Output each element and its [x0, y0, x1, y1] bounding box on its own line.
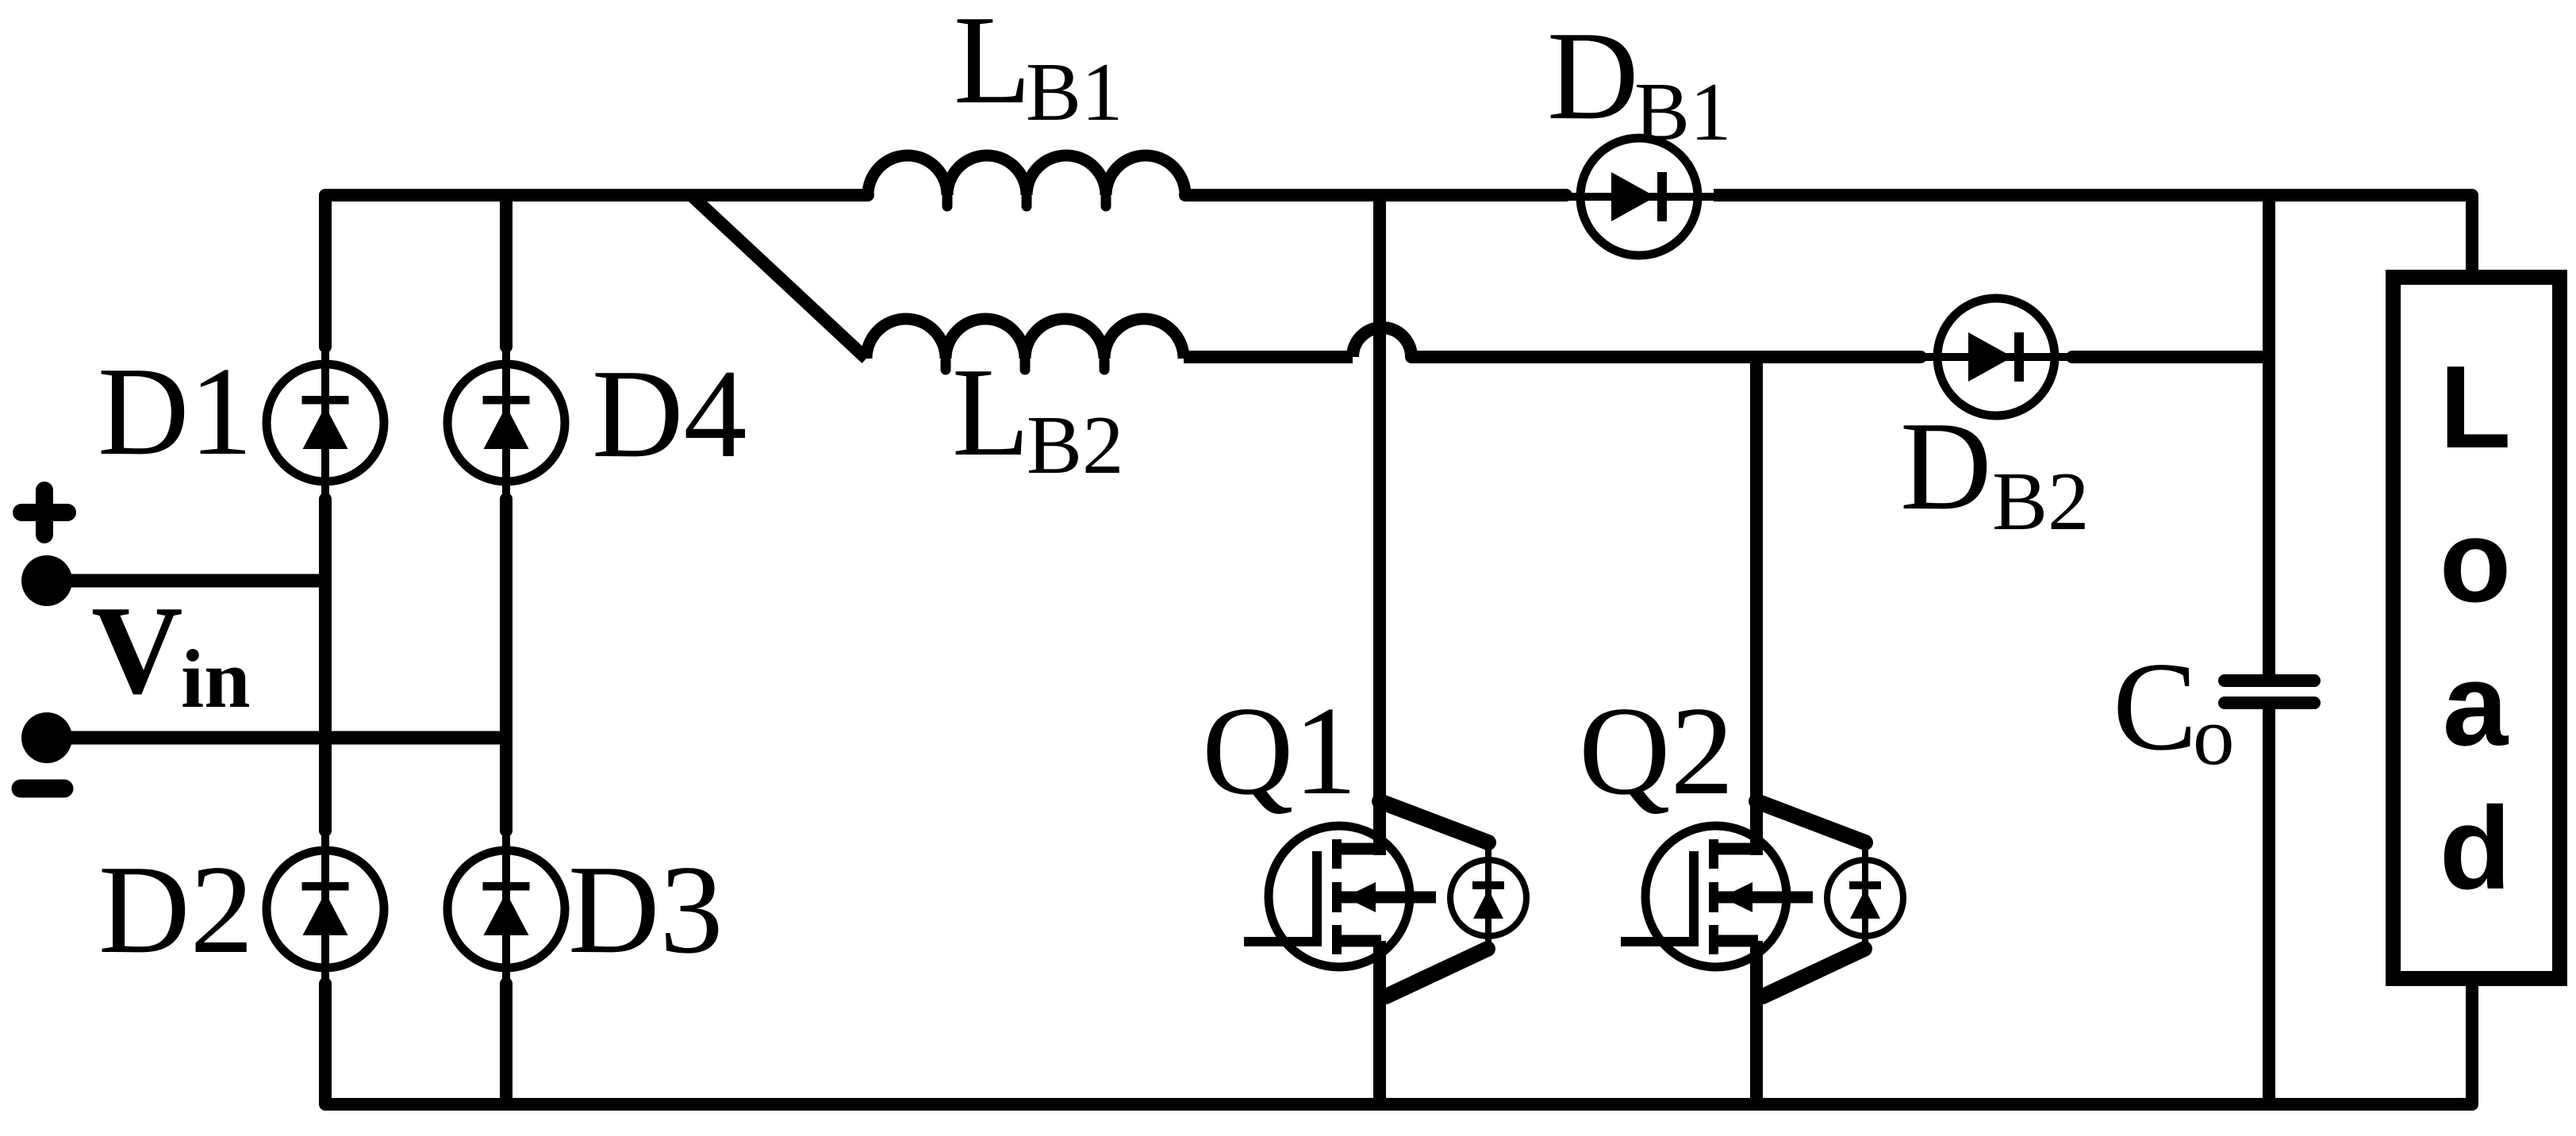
wire Vin plus: [47, 574, 325, 588]
svg-text:Q1: Q1: [1202, 680, 1357, 821]
svg-text:o: o: [2193, 689, 2235, 782]
wire hop over Q1 branch: [1353, 328, 1411, 357]
diode D2: [267, 833, 384, 985]
inductor LB2: [866, 319, 1184, 359]
wire Vin minus: [47, 731, 506, 745]
wire LB2 node to DB2: [1411, 351, 1921, 363]
minus terminal: [21, 780, 64, 798]
capacitor Co: [2225, 674, 2314, 687]
diode DB2: [1921, 298, 2071, 416]
wire Q1 drain branch: [1373, 195, 1386, 855]
svg-text:C: C: [2113, 635, 2198, 777]
node plus dot: [21, 555, 72, 606]
svg-text:D: D: [1547, 5, 1639, 146]
svg-text:L: L: [954, 0, 1031, 130]
svg-text:B2: B2: [1992, 455, 2090, 547]
transistor Q2: [1621, 801, 1903, 996]
svg-text:B1: B1: [1026, 45, 1123, 138]
diode D4: [447, 347, 565, 499]
wire top bus left with corner down to D1: [325, 195, 868, 347]
wire Co branch bottom: [2263, 708, 2275, 1104]
svg-text:D1: D1: [98, 340, 253, 482]
svg-text:B1: B1: [1634, 65, 1732, 158]
svg-text:in: in: [181, 632, 251, 725]
svg-text:o: o: [2440, 496, 2511, 627]
diode D3: [447, 833, 565, 985]
wire LB2 to hop: [1184, 351, 1353, 363]
svg-text:Q2: Q2: [1579, 680, 1734, 821]
svg-text:L: L: [952, 341, 1030, 482]
svg-text:a: a: [2443, 639, 2509, 770]
wire top bus mid: [1185, 189, 1566, 201]
svg-text:d: d: [2440, 783, 2511, 914]
load box: [2394, 278, 2560, 979]
wire diagonal to LB2: [691, 195, 866, 359]
svg-text:D2: D2: [98, 839, 254, 980]
svg-text:L: L: [2440, 342, 2511, 473]
svg-text:V: V: [91, 579, 183, 720]
diode D1: [267, 347, 384, 499]
svg-text:B2: B2: [1027, 398, 1124, 491]
svg-text:D3: D3: [568, 839, 724, 980]
wire bottom bus with corners: [325, 984, 2472, 1104]
wire left column mid: [319, 499, 332, 831]
wire Q2 source to bottom bus: [1750, 941, 1763, 1104]
inductor LB1: [868, 155, 1185, 195]
wire Q2 drain branch: [1750, 357, 1763, 855]
wire D4-D3 column mid: [500, 499, 513, 831]
wire top bus right with corner down to Load: [1714, 195, 2472, 274]
svg-text:D: D: [1900, 395, 1992, 536]
svg-text:D4: D4: [592, 343, 747, 484]
transistor Q1: [1244, 801, 1526, 996]
node minus dot: [21, 712, 72, 763]
plus terminal: [21, 504, 67, 521]
diode DB1: [1564, 138, 1714, 255]
wire DB2 to output node: [2072, 351, 2094, 363]
wire Q1 source to bottom bus: [1373, 941, 1386, 1104]
wire Co branch top: [2263, 195, 2275, 676]
wire D4 column top: [500, 195, 513, 347]
wire D3 column bottom: [500, 984, 513, 1104]
